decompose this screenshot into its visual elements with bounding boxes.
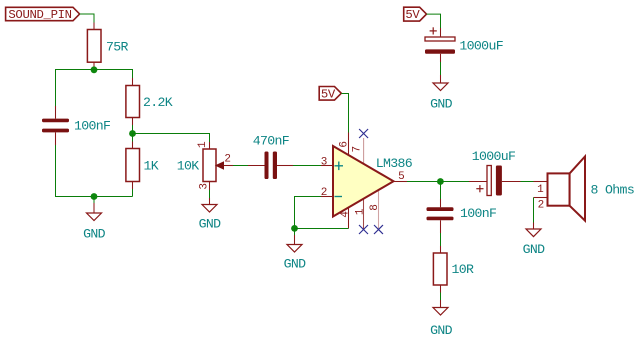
svg-text:2: 2	[538, 200, 545, 212]
wire from SOUND_PIN to R 75R	[80, 14, 94, 23]
svg-text:7: 7	[352, 146, 364, 153]
global label 5V (op-amp supply)	[319, 87, 341, 102]
svg-text:5V: 5V	[405, 8, 420, 22]
capacitor 470nF	[248, 134, 293, 180]
ground GND (speaker)	[523, 223, 546, 258]
wire C 100nF to R 10R	[440, 233, 442, 246]
wire pot wiper to C 470nF	[233, 165, 248, 167]
capacitor 1000uF (output, polarized)	[469, 149, 521, 196]
op-amp LM386	[321, 133, 413, 230]
wire C 100nF down to bottom rail	[56, 145, 133, 197]
svg-text:75R: 75R	[106, 40, 129, 55]
svg-text:2: 2	[321, 187, 328, 199]
global label SOUND_PIN	[6, 7, 80, 22]
junction node A	[91, 66, 98, 73]
svg-text:1: 1	[197, 141, 209, 148]
svg-text:10R: 10R	[452, 262, 475, 277]
wire speaker pin 2 down to GND	[533, 198, 535, 223]
svg-text:6: 6	[338, 141, 350, 148]
svg-text:100nF: 100nF	[74, 119, 110, 134]
capacitor 1000uF (filter, polarized)	[425, 27, 503, 62]
svg-text:3: 3	[198, 183, 210, 190]
wire junction D to C 1000uF	[441, 181, 470, 183]
resistor 10R	[433, 246, 474, 293]
svg-text:470nF: 470nF	[253, 134, 289, 149]
wire C 1000uF to speaker pin 1	[521, 181, 534, 183]
wire junction A left and down to C 100nF	[56, 70, 95, 107]
wire C 1000uF (filter) to GND	[440, 62, 442, 75]
wire R 10R to GND	[440, 293, 442, 301]
svg-text:10K: 10K	[177, 159, 200, 174]
resistor 2.2K	[126, 78, 173, 125]
ground GND (10R)	[430, 300, 453, 338]
svg-text:1000uF: 1000uF	[459, 38, 503, 53]
junction on bottom rail	[91, 193, 98, 200]
svg-text:3: 3	[321, 156, 328, 168]
no-connect X pin 8	[374, 225, 383, 234]
wire 1K to bottom rail	[132, 189, 134, 197]
no-connect X pin 7	[359, 129, 368, 138]
svg-text:LM386: LM386	[376, 156, 413, 171]
wire junction B right to pot 10K	[133, 134, 210, 143]
svg-text:4: 4	[339, 211, 351, 218]
junction node B	[129, 130, 136, 137]
global label 5V (filter cap)	[404, 7, 427, 22]
wire junction B down to R 1K	[132, 134, 134, 142]
ground GND (op-amp)	[284, 229, 307, 272]
potentiometer 10K	[177, 141, 233, 190]
svg-text:GND: GND	[523, 242, 546, 257]
svg-text:5: 5	[398, 171, 405, 183]
svg-text:GND: GND	[430, 97, 453, 112]
svg-text:1000uF: 1000uF	[472, 149, 516, 164]
svg-text:2: 2	[224, 154, 231, 166]
wire junction A right to R 2.2K	[94, 70, 133, 79]
svg-text:GND: GND	[199, 217, 222, 232]
ground GND (pot)	[199, 190, 222, 232]
svg-text:2.2K: 2.2K	[143, 95, 173, 110]
wire junction C to op-amp pin 4	[295, 228, 349, 230]
wire C 470nF to op-amp pin 3	[293, 165, 321, 167]
resistor 1K	[126, 142, 159, 190]
wire op-amp pin 2 to junction C	[295, 197, 322, 229]
capacitor 100nF (left)	[42, 106, 110, 145]
speaker 8 Ohms	[534, 157, 635, 221]
svg-text:GND: GND	[284, 256, 307, 271]
svg-text:1: 1	[355, 208, 367, 215]
svg-text:100nF: 100nF	[460, 206, 496, 221]
svg-text:8: 8	[369, 204, 381, 211]
junction node D	[437, 178, 444, 185]
wire 2.2K to junction B	[132, 125, 134, 134]
svg-text:SOUND_PIN: SOUND_PIN	[8, 8, 71, 22]
capacitor 100nF (zobel)	[427, 199, 497, 233]
no-connect X pin 1	[359, 225, 368, 234]
svg-text:GND: GND	[430, 323, 453, 338]
wire junction D down to C 100nF (zobel)	[440, 182, 442, 200]
wire 5V to op-amp pin 6	[341, 94, 348, 133]
ground GND (left rail)	[83, 197, 106, 242]
svg-text:5V: 5V	[321, 87, 336, 101]
svg-text:1K: 1K	[144, 159, 159, 174]
resistor 75R	[87, 23, 128, 70]
junction node C	[291, 225, 298, 232]
ground GND (filter cap)	[430, 75, 453, 112]
svg-text:GND: GND	[83, 227, 106, 242]
wire 5V to C 1000uF (filter)	[427, 14, 441, 28]
svg-text:8 Ohms: 8 Ohms	[591, 183, 635, 198]
svg-text:1: 1	[537, 184, 544, 196]
wire op-amp pin 5 to junction D	[407, 181, 441, 183]
